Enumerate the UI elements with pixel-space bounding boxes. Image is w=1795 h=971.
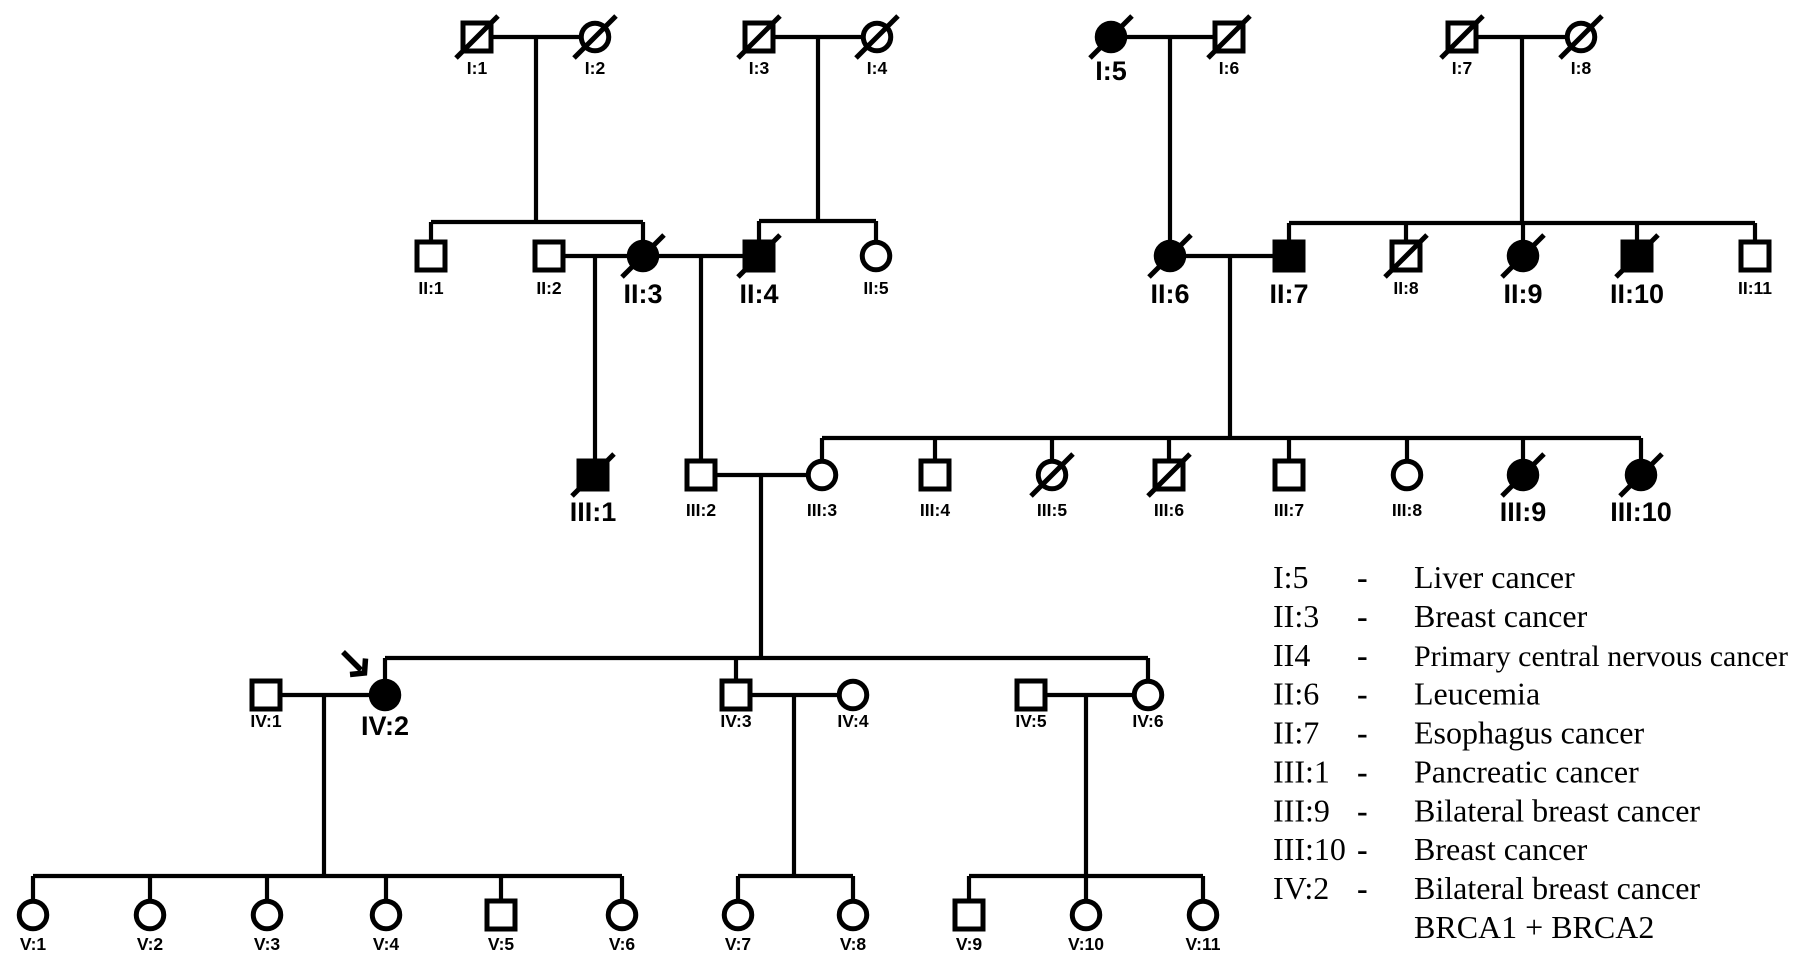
svg-text:II:7: II:7 [1269,279,1308,309]
wire: sibship line II:4 II:5 [759,219,876,223]
wire: child drop to II:5 [874,221,878,256]
wire: child drop to V:6 [620,876,624,915]
proband arrow pointing to IV:2 [343,652,366,675]
individual IV:6: female circle [1134,681,1162,709]
individual II:9: affected female circle [1509,242,1537,270]
svg-text:V:9: V:9 [956,934,983,954]
wire: child drop to III:5 [1050,438,1054,475]
svg-text:III:1: III:1 [570,497,617,527]
svg-text:-: - [1357,715,1368,751]
svg-text:III:9: III:9 [1273,792,1330,828]
wire: child drop to V:2 [148,876,152,915]
wire: child drop to V:1 [31,876,35,915]
svg-text:III:1: III:1 [1273,753,1330,789]
svg-text:V:1: V:1 [20,934,47,954]
svg-text:Liver cancer: Liver cancer [1414,559,1575,595]
svg-text:III:7: III:7 [1274,500,1304,520]
svg-text:V:7: V:7 [725,934,751,954]
svg-text:I:2: I:2 [585,58,606,78]
wire: child drop to V:11 [1201,876,1205,915]
svg-text:I:1: I:1 [467,58,488,78]
svg-text:III:3: III:3 [807,500,837,520]
wire: descent drop from couple II:2 x II:3 to III:1 [593,256,597,475]
wire: sibship line III:3 .. III:10 [822,436,1641,440]
individual III:3: female circle [808,461,836,489]
wire: sibship line II:7 .. II:11 [1289,221,1755,225]
individual V:5: male square [487,901,515,929]
svg-text:III:9: III:9 [1500,497,1547,527]
wire: couple line II:2 - II:3 [549,254,643,258]
svg-text:II:11: II:11 [1738,278,1772,298]
wire: child drop to II:11 [1753,223,1757,256]
wire: child drop to IV:6 [1146,658,1150,695]
svg-text:II:9: II:9 [1503,279,1542,309]
wire: child drop to V:3 [265,876,269,915]
wire: descent drop from couple II:3 x II:4 to III:2 [699,256,703,475]
svg-text:Pancreatic cancer: Pancreatic cancer [1414,753,1639,789]
deceased slash for II:9 [1502,235,1544,277]
wire: child drop to II:4 [757,221,761,256]
individual III:1: affected male square [579,461,607,489]
svg-text:Leucemia: Leucemia [1414,676,1540,712]
svg-text:-: - [1357,831,1368,867]
wire: descent drop from couple I:7 x I:8 [1520,37,1524,223]
wire: descent drop from couple I:5 x I:6 to II:6 [1168,37,1172,256]
svg-text:V:11: V:11 [1185,934,1220,954]
deceased slash for I:1 [456,16,498,58]
individual II:2: male square [535,242,563,270]
svg-text:-: - [1357,598,1368,634]
wire: child drop to II:10 [1635,223,1639,256]
svg-text:-: - [1357,676,1368,712]
individual V:11: female circle [1189,901,1217,929]
svg-text:I:5: I:5 [1273,559,1309,595]
individual III:4: male square [921,461,949,489]
wire: couple line I:7 - I:8 [1462,35,1581,39]
individual III:9: affected female circle [1509,461,1537,489]
individual II:10: affected male square [1623,242,1651,270]
individual III:7: male square [1275,461,1303,489]
wire: couple line I:5 - I:6 [1111,35,1229,39]
individual II:7: affected male square [1275,242,1303,270]
wire: child drop to V:5 [499,876,503,915]
individual IV:2: affected female circle [371,681,399,709]
svg-text:IV:2: IV:2 [1273,870,1329,906]
deceased slash for II:4 [738,235,780,277]
svg-text:IV:2: IV:2 [361,711,409,741]
wire: child drop to V:10 [1084,876,1088,915]
wire: couple line III:2 - III:3 [701,473,822,477]
svg-text:II:3: II:3 [623,279,662,309]
svg-text:III:2: III:2 [686,500,716,520]
wire: couple line II:6 - II:7 [1170,254,1289,258]
svg-text:II:1: II:1 [418,278,444,298]
deceased slash for I:2 [574,16,616,58]
wire: child drop to V:7 [736,876,740,915]
svg-text:-: - [1357,792,1368,828]
svg-text:III:5: III:5 [1037,500,1067,520]
svg-text:II:5: II:5 [863,278,889,298]
svg-text:IV:6: IV:6 [1132,711,1163,731]
individual I:1: male square [463,23,491,51]
wire: couple line IV:5 - IV:6 [1031,693,1148,697]
svg-text:Breast cancer: Breast cancer [1414,598,1588,634]
deceased slash for I:6 [1208,16,1250,58]
wire: sibship line II:1 II:3 [431,220,643,224]
wire: sibship line V:9 .. V:11 [969,874,1203,878]
deceased slash for II:6 [1149,235,1191,277]
deceased slash for III:5 [1031,454,1073,496]
deceased slash for III:1 [572,454,614,496]
individual II:11: male square [1741,242,1769,270]
wire: child drop to III:10 [1639,438,1643,475]
wire: couple line IV:3 - IV:4 [736,693,853,697]
individual V:1: female circle [19,901,47,929]
individual V:4: female circle [372,901,400,929]
deceased slash for II:8 [1385,235,1427,277]
svg-text:I:4: I:4 [867,58,888,78]
individual V:8: female circle [839,901,867,929]
deceased slash for I:7 [1441,16,1483,58]
wire: descent drop from couple I:1 x I:2 [534,37,538,222]
deceased slash for III:10 [1620,454,1662,496]
deceased slash for III:9 [1502,454,1544,496]
svg-text:II:7: II:7 [1273,715,1319,751]
svg-text:Esophagus cancer: Esophagus cancer [1414,715,1644,751]
individual IV:1: male square [252,681,280,709]
svg-text:II4: II4 [1273,637,1310,673]
svg-text:II:8: II:8 [1393,278,1419,298]
individual IV:5: male square [1017,681,1045,709]
svg-text:Bilateral breast cancer: Bilateral breast cancer [1414,870,1700,906]
wire: child drop to II:1 [429,222,433,256]
wire: child drop to II:3 [641,222,645,256]
deceased slash for I:3 [738,16,780,58]
individual III:2: male square [687,461,715,489]
wire: descent drop from couple III:2 x III:3 [759,475,763,658]
wire: child drop to IV:2 [383,658,387,695]
wire: child drop to V:9 [967,876,971,915]
individual II:5: female circle [862,242,890,270]
svg-text:II:6: II:6 [1273,676,1319,712]
individual V:7: female circle [724,901,752,929]
individual V:2: female circle [136,901,164,929]
svg-text:III:8: III:8 [1392,500,1422,520]
svg-text:II:10: II:10 [1610,279,1664,309]
wire: child drop to III:4 [933,438,937,475]
svg-text:IV:5: IV:5 [1015,711,1046,731]
deceased slash for I:4 [856,16,898,58]
svg-text:V:4: V:4 [373,934,400,954]
svg-text:IV:1: IV:1 [250,711,281,731]
svg-text:I:7: I:7 [1452,58,1472,78]
wire: descent drop from couple I:3 x I:4 [816,37,820,221]
individual V:6: female circle [608,901,636,929]
wire: child drop to III:3 [820,438,824,475]
svg-text:III:10: III:10 [1273,831,1346,867]
wire: child drop to V:4 [384,876,388,915]
wire: couple line I:3 - I:4 [759,35,877,39]
svg-text:V:10: V:10 [1068,934,1104,954]
svg-text:V:3: V:3 [254,934,281,954]
deceased slash for II:3 [622,235,664,277]
svg-text:IV:3: IV:3 [720,711,751,731]
wire: descent drop from couple IV:3 x IV:4 [792,695,796,876]
wire: sibship line V:1 .. V:6 [33,874,622,878]
individual III:8: female circle [1393,461,1421,489]
svg-text:V:6: V:6 [609,934,636,954]
wire: child drop to V:8 [851,876,855,915]
svg-text:III:10: III:10 [1610,497,1672,527]
svg-text:II:3: II:3 [1273,598,1319,634]
svg-text:-: - [1357,753,1368,789]
individual I:2: female circle [581,23,609,51]
individual I:6: male square [1215,23,1243,51]
deceased slash for I:5 [1090,16,1132,58]
individual II:4: affected male square [745,242,773,270]
individual II:8: male square [1392,242,1420,270]
svg-text:IV:4: IV:4 [837,711,868,731]
deceased slash for III:6 [1148,454,1190,496]
svg-text:Breast cancer: Breast cancer [1414,831,1588,867]
svg-text:III:4: III:4 [920,500,950,520]
wire: descent drop from couple II:6 x II:7 [1228,256,1232,438]
individual I:4: female circle [863,23,891,51]
wire: couple line IV:1 - IV:2 [266,693,385,697]
individual I:7: male square [1448,23,1476,51]
svg-text:V:2: V:2 [137,934,164,954]
individual IV:4: female circle [839,681,867,709]
individual II:6: affected female circle [1156,242,1184,270]
deceased slash for II:10 [1616,235,1658,277]
svg-text:III:6: III:6 [1154,500,1184,520]
svg-text:-: - [1357,637,1368,673]
svg-text:II:4: II:4 [739,279,778,309]
wire: child drop to III:8 [1405,438,1409,475]
svg-text:I:8: I:8 [1571,58,1592,78]
svg-text:I:6: I:6 [1219,58,1240,78]
svg-text:I:3: I:3 [749,58,770,78]
wire: couple line II:3 - II:4 [643,254,759,258]
svg-text:Bilateral breast cancer: Bilateral breast cancer [1414,792,1700,828]
svg-text:II:2: II:2 [536,278,562,298]
wire: child drop to IV:3 [734,658,738,695]
individual III:6: male square [1155,461,1183,489]
individual II:1: male square [417,242,445,270]
wire: child drop to II:8 [1404,223,1408,256]
individual III:10: affected female circle [1627,461,1655,489]
wire: sibship line V:7 V:8 [738,874,853,878]
individual I:8: female circle [1567,23,1595,51]
individual IV:3: male square [722,681,750,709]
deceased slash for I:8 [1560,16,1602,58]
wire: child drop to III:9 [1521,438,1525,475]
svg-text:V:8: V:8 [840,934,867,954]
wire: child drop to III:7 [1287,438,1291,475]
svg-text:V:5: V:5 [488,934,515,954]
wire: couple line I:1 - I:2 [477,35,595,39]
svg-text:Primary central nervous cancer: Primary central nervous cancer [1414,640,1788,673]
wire: child drop to II:7 [1287,223,1291,256]
wire: child drop to II:9 [1521,223,1525,256]
wire: descent drop from couple IV:5 x IV:6 [1084,695,1088,876]
individual I:5: affected female circle [1097,23,1125,51]
individual I:3: male square [745,23,773,51]
wire: child drop to III:6 [1167,438,1171,475]
svg-text:I:5: I:5 [1095,56,1127,86]
svg-text:BRCA1 + BRCA2: BRCA1 + BRCA2 [1414,909,1654,945]
individual III:5: female circle [1038,461,1066,489]
wire: descent drop from couple IV:1 x IV:2 [322,695,326,876]
individual V:9: male square [955,901,983,929]
wire: sibship line IV:2 IV:3 IV:6 [385,656,1148,660]
individual II:3: affected female circle [629,242,657,270]
svg-text:II:6: II:6 [1150,279,1189,309]
individual V:10: female circle [1072,901,1100,929]
svg-text:-: - [1357,870,1368,906]
individual V:3: female circle [253,901,281,929]
svg-text:-: - [1357,559,1368,595]
